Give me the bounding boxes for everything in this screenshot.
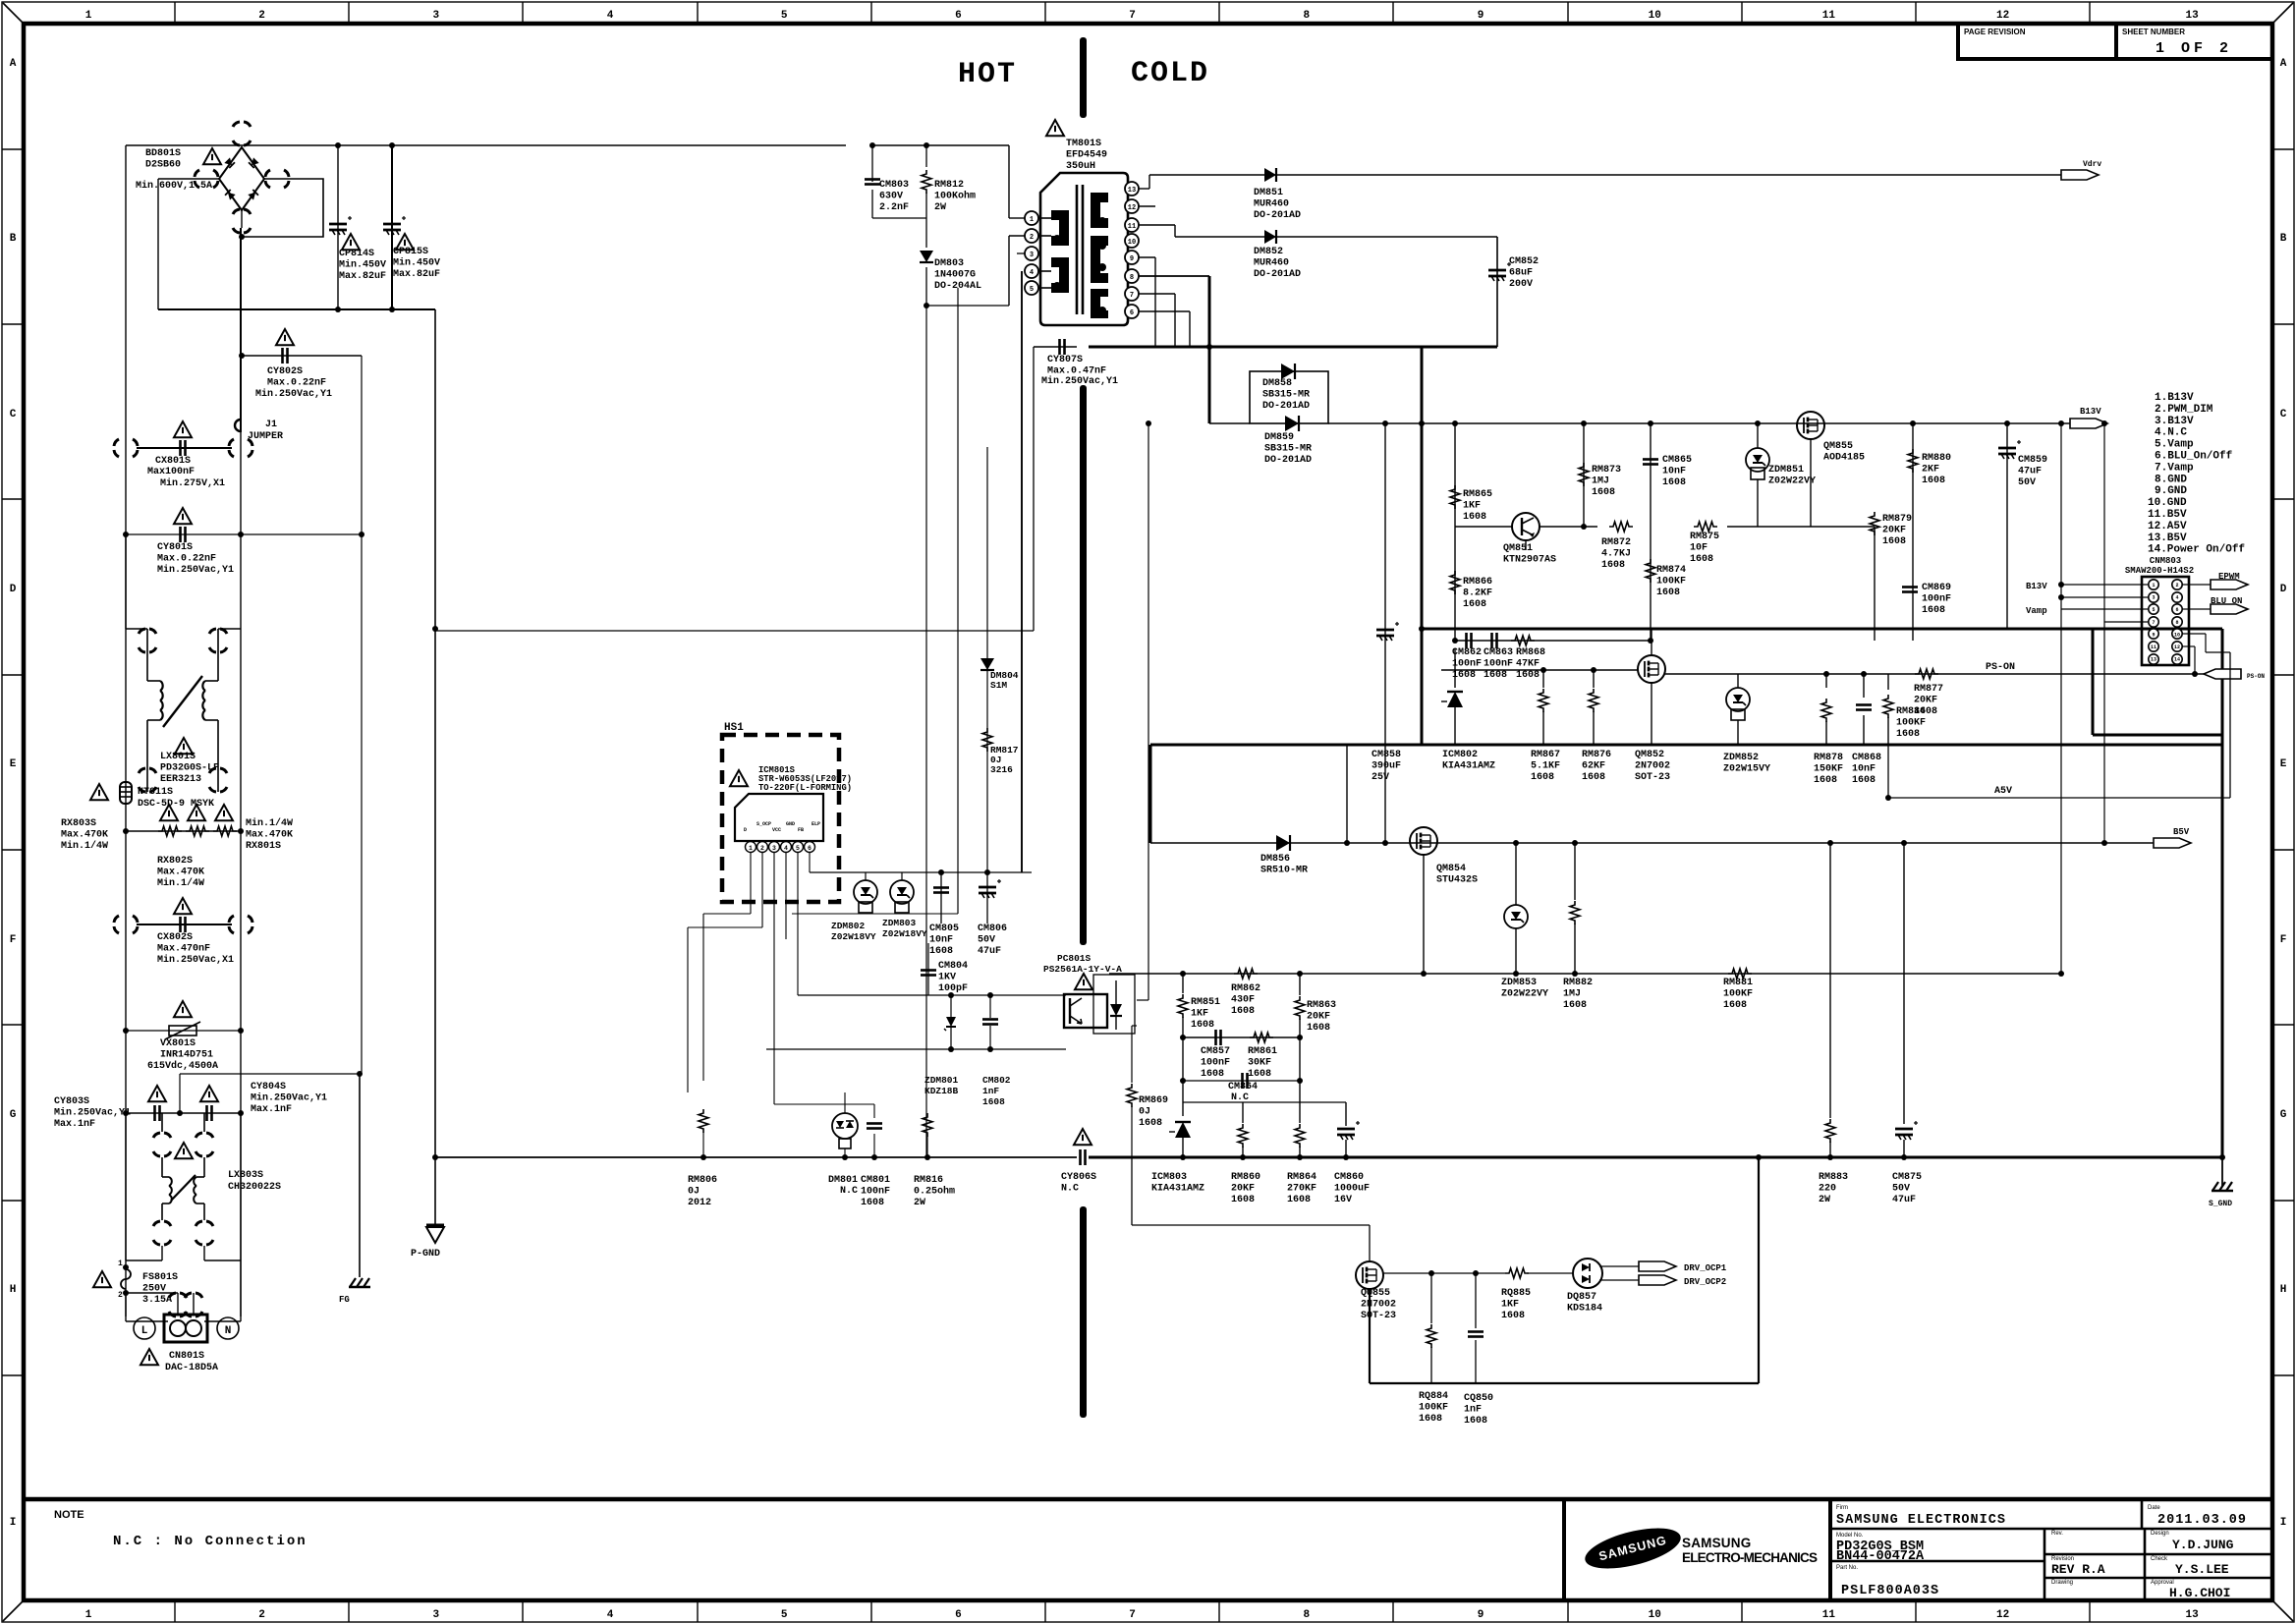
svg-text:DSC-5D-9 MSYK: DSC-5D-9 MSYK xyxy=(138,799,214,810)
svg-text:1nF: 1nF xyxy=(1464,1405,1482,1416)
svg-text:1: 1 xyxy=(1030,216,1034,224)
svg-text:LX803S: LX803S xyxy=(228,1170,263,1181)
svg-text:REV R.A: REV R.A xyxy=(2051,1562,2105,1577)
svg-text:1: 1 xyxy=(85,10,92,22)
svg-text:CM863: CM863 xyxy=(1484,647,1513,658)
svg-text:Max.470K: Max.470K xyxy=(157,868,204,878)
svg-text:QQ855: QQ855 xyxy=(1361,1288,1390,1299)
svg-text:H: H xyxy=(10,1284,17,1296)
svg-text:DRV_OCP1: DRV_OCP1 xyxy=(1684,1263,1727,1273)
svg-text:A5V: A5V xyxy=(1994,786,2012,797)
svg-text:1608: 1608 xyxy=(1922,605,1945,616)
wire pin11 to DM852 xyxy=(1139,224,1175,226)
svg-text:CH320022S: CH320022S xyxy=(228,1182,281,1193)
capacitor CM806 xyxy=(986,872,988,924)
capacitor CY804S xyxy=(205,1105,208,1121)
resistor RM863 xyxy=(1299,974,1301,995)
svg-text:KDS184: KDS184 xyxy=(1567,1304,1602,1315)
svg-text:2: 2 xyxy=(760,845,764,852)
svg-text:8.GND: 8.GND xyxy=(2155,474,2187,485)
svg-text:62KF: 62KF xyxy=(1582,761,1605,772)
svg-text:RM872: RM872 xyxy=(1601,537,1631,548)
svg-text:CM875: CM875 xyxy=(1892,1172,1922,1183)
svg-text:Min.1/4W: Min.1/4W xyxy=(61,840,108,852)
svg-text:E: E xyxy=(2280,758,2287,770)
wire N rail xyxy=(240,228,242,1316)
svg-text:9: 9 xyxy=(1130,255,1134,263)
resistor RX801S xyxy=(213,826,237,836)
svg-text:7.Vamp: 7.Vamp xyxy=(2155,462,2194,474)
svg-text:1608: 1608 xyxy=(1287,1195,1311,1205)
svg-text:7: 7 xyxy=(2152,620,2155,626)
svg-text:RM812: RM812 xyxy=(934,180,964,191)
svg-text:RM862: RM862 xyxy=(1231,983,1260,994)
transformer TM801S xyxy=(1040,173,1128,325)
svg-text:100KF: 100KF xyxy=(1723,989,1753,1000)
svg-text:CQ850: CQ850 xyxy=(1464,1393,1493,1404)
svg-text:1608: 1608 xyxy=(1690,554,1713,565)
svg-text:50V: 50V xyxy=(1892,1184,1910,1195)
svg-text:CM862: CM862 xyxy=(1452,647,1482,658)
svg-text:100KF: 100KF xyxy=(1419,1403,1448,1414)
transistor QM851 xyxy=(1512,513,1540,540)
svg-text:RX803S: RX803S xyxy=(61,818,96,829)
output arrow B13V xyxy=(2070,419,2107,428)
svg-text:G: G xyxy=(2280,1109,2287,1121)
page revision box xyxy=(1958,24,2116,59)
wire primary gnd link 642 xyxy=(435,630,1034,632)
svg-text:Min.250Vac,Y1: Min.250Vac,Y1 xyxy=(54,1107,131,1119)
svg-text:1KF: 1KF xyxy=(1501,1300,1519,1311)
svg-text:C: C xyxy=(2280,409,2287,420)
svg-text:DRV_OCP2: DRV_OCP2 xyxy=(1684,1277,1726,1287)
jumper J1 xyxy=(240,228,242,432)
wire CY807S left down xyxy=(1033,347,1035,631)
resistor RM874 xyxy=(1646,559,1655,583)
wire row 1056 xyxy=(1183,1036,1300,1038)
samsung logo xyxy=(1581,1520,1684,1576)
svg-text:D: D xyxy=(744,827,747,833)
wire cold thick vertical 1447 xyxy=(1421,347,1424,745)
svg-text:RM875: RM875 xyxy=(1690,532,1719,542)
svg-text:Vdrv: Vdrv xyxy=(2083,160,2101,169)
svg-text:N.C: N.C xyxy=(1231,1092,1249,1103)
svg-text:2.2nF: 2.2nF xyxy=(879,202,909,213)
svg-text:RM860: RM860 xyxy=(1231,1172,1260,1183)
svg-text:1608: 1608 xyxy=(1484,670,1507,681)
wire A5V xyxy=(1888,797,2230,799)
wire QQ855 source loop xyxy=(1369,1289,1371,1383)
capacitor CM860 xyxy=(1345,1102,1347,1126)
svg-text:10nF: 10nF xyxy=(929,935,953,946)
wire dc+ vertical CP814S xyxy=(337,145,339,309)
svg-text:Max.0.22nF: Max.0.22nF xyxy=(157,554,216,565)
capacitor CM863 xyxy=(1490,633,1493,648)
svg-text:7: 7 xyxy=(1129,10,1136,22)
svg-text:1608: 1608 xyxy=(1231,1006,1255,1017)
svg-text:RM851: RM851 xyxy=(1191,997,1220,1008)
resistor RM881 xyxy=(1728,969,1752,979)
svg-text:Max.1nF: Max.1nF xyxy=(54,1119,95,1130)
wire QM851 base row xyxy=(1455,526,1512,528)
svg-text:S1M: S1M xyxy=(990,680,1007,691)
svg-text:100pF: 100pF xyxy=(938,983,968,994)
svg-text:Design: Design xyxy=(2151,1531,2169,1537)
svg-text:ZDM803: ZDM803 xyxy=(882,918,917,928)
resistor RM866 xyxy=(1450,571,1460,594)
svg-text:9: 9 xyxy=(2152,632,2155,638)
capacitor CM803 xyxy=(871,145,873,182)
svg-text:RX801S: RX801S xyxy=(246,841,281,852)
resistor RX802S xyxy=(186,826,209,836)
wire zdm top link xyxy=(865,872,867,880)
svg-text:KIA431AMZ: KIA431AMZ xyxy=(1442,761,1495,772)
svg-text:1608: 1608 xyxy=(1501,1311,1525,1321)
svg-text:3.B13V: 3.B13V xyxy=(2155,416,2194,427)
svg-text:14.Power On/Off: 14.Power On/Off xyxy=(2148,544,2245,556)
svg-text:68uF: 68uF xyxy=(1509,268,1533,279)
resistor RM877 xyxy=(1915,669,1938,679)
svg-text:1: 1 xyxy=(118,1260,123,1268)
svg-text:C: C xyxy=(10,409,17,420)
svg-text:9: 9 xyxy=(1478,10,1484,22)
svg-text:12: 12 xyxy=(1996,10,2009,22)
svg-text:16V: 16V xyxy=(1334,1195,1352,1205)
wire pin8 to thick bus xyxy=(1139,275,1209,277)
svg-text:1608: 1608 xyxy=(1463,599,1486,610)
svg-text:MUR460: MUR460 xyxy=(1254,199,1289,210)
svg-text:0J: 0J xyxy=(688,1187,700,1198)
svg-text:1608: 1608 xyxy=(1896,729,1920,740)
svg-text:CP814S: CP814S xyxy=(339,249,374,259)
svg-text:BD801S: BD801S xyxy=(145,148,181,159)
svg-text:JUMPER: JUMPER xyxy=(248,431,283,442)
wire primary aux vertical xyxy=(1024,218,1026,236)
svg-text:ZDM802: ZDM802 xyxy=(831,921,866,931)
svg-text:D2SB60: D2SB60 xyxy=(145,160,181,171)
svg-text:ZDM801: ZDM801 xyxy=(924,1075,959,1086)
capacitor CM805 xyxy=(940,872,942,924)
svg-text:4: 4 xyxy=(607,10,614,22)
svg-text:CM859: CM859 xyxy=(2018,455,2047,466)
output arrow B5V xyxy=(2154,838,2191,848)
svg-text:CY802S: CY802S xyxy=(267,366,303,377)
svg-text:GND: GND xyxy=(786,821,795,827)
svg-text:DO-201AD: DO-201AD xyxy=(1264,455,1312,466)
svg-text:4.7KJ: 4.7KJ xyxy=(1601,549,1631,560)
svg-text:CM852: CM852 xyxy=(1509,256,1539,267)
wire thick bus 748 xyxy=(2093,734,2222,737)
resistor RM875 xyxy=(1631,526,1682,528)
svg-text:3: 3 xyxy=(2152,595,2155,601)
svg-text:200V: 200V xyxy=(1509,279,1533,290)
svg-text:RM869: RM869 xyxy=(1139,1095,1168,1106)
wire vcc row xyxy=(774,885,958,887)
svg-text:ICM802: ICM802 xyxy=(1442,750,1478,760)
capacitor CM869 xyxy=(1902,586,1918,588)
wire bottom rail P side components xyxy=(700,1154,706,1160)
svg-text:B13V: B13V xyxy=(2026,582,2047,591)
svg-text:1608: 1608 xyxy=(1922,476,1945,486)
svg-text:50V: 50V xyxy=(2018,477,2036,488)
svg-text:COLD: COLD xyxy=(1131,57,1209,90)
svg-text:PSLF800A03S: PSLF800A03S xyxy=(1841,1584,1939,1598)
svg-text:Min.600V,1.5A: Min.600V,1.5A xyxy=(136,180,212,192)
svg-text:1MJ: 1MJ xyxy=(1563,989,1581,1000)
svg-text:6.BLU_On/Off: 6.BLU_On/Off xyxy=(2155,451,2233,463)
resistor RM864 xyxy=(1299,1081,1301,1123)
svg-text:PAGE REVISION: PAGE REVISION xyxy=(1964,28,2026,36)
ground P-GND xyxy=(426,1224,444,1227)
resistor RM880 xyxy=(1912,423,1914,641)
svg-text:100nF: 100nF xyxy=(1201,1058,1230,1069)
svg-text:Min.1/4W: Min.1/4W xyxy=(246,817,293,829)
wire thick bus 640 xyxy=(1422,628,2222,631)
svg-text:NOTE: NOTE xyxy=(54,1509,84,1521)
svg-text:RM884: RM884 xyxy=(1896,706,1926,717)
svg-text:CM860: CM860 xyxy=(1334,1172,1364,1183)
wire B13V to connector xyxy=(2060,174,2062,176)
svg-text:2012: 2012 xyxy=(688,1198,711,1208)
svg-text:1N4007G: 1N4007G xyxy=(934,270,976,281)
svg-text:6: 6 xyxy=(808,845,812,852)
svg-text:Max.82uF: Max.82uF xyxy=(393,269,440,280)
svg-text:CM857: CM857 xyxy=(1201,1046,1230,1057)
capacitor CM804 xyxy=(927,943,929,995)
svg-text:CM865: CM865 xyxy=(1662,455,1692,466)
svg-text:Vamp: Vamp xyxy=(2026,606,2047,616)
svg-text:SOT-23: SOT-23 xyxy=(1635,772,1670,783)
wire opto drive rows xyxy=(798,994,1066,996)
wire QM855 gate down xyxy=(1810,439,1812,527)
svg-text:PD32G0S-LF: PD32G0S-LF xyxy=(160,763,219,774)
shunt regulator ICM803 xyxy=(1175,1121,1191,1123)
svg-text:S_OCP: S_OCP xyxy=(756,821,771,827)
svg-text:RM866: RM866 xyxy=(1463,577,1492,588)
svg-text:SB315-MR: SB315-MR xyxy=(1262,390,1310,401)
wire connector right drops xyxy=(2182,633,2206,635)
svg-text:ZDM853: ZDM853 xyxy=(1501,978,1537,988)
svg-text:10nF: 10nF xyxy=(1852,764,1876,775)
svg-text:1608: 1608 xyxy=(1201,1069,1224,1080)
svg-text:Max.470K: Max.470K xyxy=(246,830,293,841)
svg-text:DO-201AD: DO-201AD xyxy=(1254,269,1301,280)
svg-text:PC801S: PC801S xyxy=(1057,953,1092,964)
svg-text:ZDM852: ZDM852 xyxy=(1723,753,1759,763)
wire P-GND vertical xyxy=(434,309,436,1225)
svg-text:ICM803: ICM803 xyxy=(1151,1172,1187,1183)
svg-text:SB315-MR: SB315-MR xyxy=(1264,444,1312,455)
svg-text:SMAW200-H14S2: SMAW200-H14S2 xyxy=(2125,566,2194,576)
svg-text:CX802S: CX802S xyxy=(157,932,193,943)
resistor RM816 xyxy=(926,1083,928,1110)
svg-text:CM864: CM864 xyxy=(1228,1082,1258,1092)
svg-text:2: 2 xyxy=(258,10,265,22)
svg-text:DM803: DM803 xyxy=(934,258,964,269)
svg-text:11: 11 xyxy=(1822,1609,1836,1621)
svg-text:6: 6 xyxy=(1130,309,1134,317)
svg-text:BLU_ON: BLU_ON xyxy=(2211,596,2242,606)
svg-text:RM861: RM861 xyxy=(1248,1046,1277,1057)
wire CM862 row xyxy=(1455,640,1651,642)
HOT/COLD isolation bar xyxy=(1080,37,1087,118)
svg-text:1608: 1608 xyxy=(1582,772,1605,783)
svg-text:Min.250Vac,X1: Min.250Vac,X1 xyxy=(157,954,234,966)
mosfet QQ855 xyxy=(1356,1261,1383,1289)
svg-text:HS1: HS1 xyxy=(724,722,744,734)
svg-text:1608: 1608 xyxy=(1723,1000,1747,1011)
svg-text:3: 3 xyxy=(772,845,776,852)
svg-text:KDZ18B: KDZ18B xyxy=(924,1086,959,1096)
svg-text:F: F xyxy=(10,934,17,946)
svg-text:2N7002: 2N7002 xyxy=(1635,761,1670,772)
wire B5V rail xyxy=(1150,842,2154,844)
svg-text:5: 5 xyxy=(1030,286,1034,294)
sheet number box xyxy=(2116,24,2272,59)
svg-text:12: 12 xyxy=(1996,1609,2009,1621)
svg-text:Y.S.LEE: Y.S.LEE xyxy=(2175,1562,2229,1577)
wire QQ855 gate feed xyxy=(1131,1157,1133,1225)
diode DM856 xyxy=(1276,835,1290,851)
svg-text:CM803: CM803 xyxy=(879,180,909,191)
svg-text:SAMSUNG ELECTRONICS: SAMSUNG ELECTRONICS xyxy=(1836,1513,2006,1528)
svg-text:DO-201AD: DO-201AD xyxy=(1262,401,1310,412)
svg-text:RM877: RM877 xyxy=(1914,684,1943,695)
wire B5V branch verticals xyxy=(1829,1099,1831,1101)
resistor RM812 xyxy=(925,145,927,167)
svg-text:CY806S: CY806S xyxy=(1061,1172,1096,1183)
svg-text:Z02W22VY: Z02W22VY xyxy=(1768,476,1816,487)
svg-text:390uF: 390uF xyxy=(1372,761,1401,772)
svg-text:5: 5 xyxy=(781,10,788,22)
wire Vdrv xyxy=(1139,188,1149,190)
svg-text:J1: J1 xyxy=(265,420,277,430)
svg-text:PS-ON: PS-ON xyxy=(2247,673,2265,680)
wire thick vertical 2130 xyxy=(2092,629,2095,735)
svg-text:B: B xyxy=(10,233,17,245)
svg-text:PS-ON: PS-ON xyxy=(1986,662,2015,673)
svg-text:QM855: QM855 xyxy=(1823,441,1853,452)
capacitor CM802 xyxy=(989,995,991,1018)
resistor RM869 xyxy=(1131,1026,1133,1083)
resistor RM865 xyxy=(1454,423,1456,641)
fuse FS801S xyxy=(123,1264,129,1270)
svg-text:2: 2 xyxy=(1030,234,1034,242)
resistor RM817 xyxy=(982,728,992,752)
resistor RM882 xyxy=(1574,843,1576,900)
svg-text:Part No.: Part No. xyxy=(1836,1565,1858,1571)
svg-text:RM865: RM865 xyxy=(1463,489,1492,500)
svg-text:Model No.: Model No. xyxy=(1836,1533,1864,1539)
wire thick bus 353 xyxy=(1089,346,1497,349)
svg-text:13: 13 xyxy=(2185,10,2199,22)
svg-text:1608: 1608 xyxy=(1656,588,1680,598)
svg-text:3.15A: 3.15A xyxy=(142,1295,172,1306)
svg-text:CM868: CM868 xyxy=(1852,753,1881,763)
wire HS1 verticals from transformer xyxy=(957,288,959,914)
svg-text:12: 12 xyxy=(2174,644,2180,650)
svg-text:RQ885: RQ885 xyxy=(1501,1288,1531,1299)
wire row 1122 xyxy=(1183,1101,1346,1103)
svg-text:2W: 2W xyxy=(934,202,946,213)
svg-text:100KF: 100KF xyxy=(1896,718,1926,729)
wire CM803-RM812 bottom xyxy=(872,217,926,219)
svg-text:8: 8 xyxy=(2175,620,2178,626)
svg-text:Firm: Firm xyxy=(1836,1505,1848,1511)
warning under bar xyxy=(1046,120,1064,136)
svg-text:I: I xyxy=(10,1517,17,1529)
svg-text:2011.03.09: 2011.03.09 xyxy=(2157,1513,2247,1528)
output arrow DRV_OCP2 xyxy=(1639,1275,1676,1285)
resistor RM872 xyxy=(1609,522,1633,532)
wire pin6 stub xyxy=(1139,310,1190,312)
capacitor CM858 xyxy=(1384,423,1386,843)
svg-text:NT811S: NT811S xyxy=(138,787,173,798)
dual diode DQ857 xyxy=(1573,1259,1602,1288)
svg-text:10nF: 10nF xyxy=(1662,467,1686,477)
svg-text:47KF: 47KF xyxy=(1516,659,1540,670)
wire BLU_ON xyxy=(2182,608,2211,610)
svg-text:RM882: RM882 xyxy=(1563,978,1593,988)
wire dc+ vertical CP815S xyxy=(391,145,393,309)
svg-text:KIA431AMZ: KIA431AMZ xyxy=(1151,1184,1204,1195)
svg-text:8: 8 xyxy=(1130,274,1134,282)
svg-text:DM801: DM801 xyxy=(828,1175,858,1186)
svg-text:1nF: 1nF xyxy=(982,1086,999,1096)
svg-text:100nF: 100nF xyxy=(1922,594,1951,605)
svg-text:2KF: 2KF xyxy=(1922,465,1939,476)
svg-text:RM880: RM880 xyxy=(1922,453,1951,464)
svg-text:QM851: QM851 xyxy=(1503,543,1533,554)
svg-text:5: 5 xyxy=(781,1609,788,1621)
svg-text:10.GND: 10.GND xyxy=(2148,497,2187,509)
svg-text:10: 10 xyxy=(1128,239,1136,247)
svg-text:10: 10 xyxy=(1649,1609,1661,1621)
svg-text:1608: 1608 xyxy=(1419,1414,1442,1425)
svg-text:0J: 0J xyxy=(1139,1107,1150,1118)
wire opto right pins xyxy=(1137,999,1148,1001)
svg-text:DM851: DM851 xyxy=(1254,188,1283,198)
svg-text:I: I xyxy=(2280,1517,2287,1529)
wire pin12 stub xyxy=(1139,205,1155,207)
svg-text:D: D xyxy=(2280,584,2287,595)
svg-text:P-GND: P-GND xyxy=(411,1249,440,1260)
resistor RM873 xyxy=(1583,423,1585,527)
svg-text:CNM803: CNM803 xyxy=(2150,556,2181,566)
svg-text:1608: 1608 xyxy=(1139,1118,1162,1129)
svg-text:VX801S: VX801S xyxy=(160,1038,196,1049)
capacitor CP814S xyxy=(329,223,347,226)
svg-text:20KF: 20KF xyxy=(1307,1012,1330,1023)
transformer right pins xyxy=(1125,182,1139,196)
svg-text:DM852: DM852 xyxy=(1254,247,1283,257)
svg-text:1KF: 1KF xyxy=(1463,501,1481,512)
svg-text:13: 13 xyxy=(1128,187,1136,195)
svg-text:1: 1 xyxy=(85,1609,92,1621)
output arrow DRV_OCP1 xyxy=(1639,1261,1676,1271)
svg-text:HOT: HOT xyxy=(958,58,1017,91)
svg-text:8: 8 xyxy=(1303,1609,1310,1621)
zener ZDM851 xyxy=(1727,526,1758,528)
resistor RM851 xyxy=(1182,974,1184,993)
capacitor CP815S xyxy=(383,223,401,226)
svg-text:1608: 1608 xyxy=(1882,536,1906,547)
svg-text:Z02W15VY: Z02W15VY xyxy=(1723,764,1770,775)
svg-text:1: 1 xyxy=(749,845,753,852)
wire lx803 to cn801 xyxy=(161,1246,163,1260)
svg-text:Drawing: Drawing xyxy=(2051,1580,2073,1586)
svg-text:ZDM851: ZDM851 xyxy=(1768,465,1804,476)
